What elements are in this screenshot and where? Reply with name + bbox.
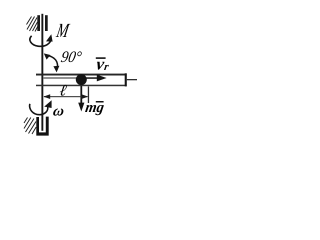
weight arrow mg [80,86,82,104]
moment arrow M (rotation arc around shaft, top) [30,36,51,47]
shaft (vertical axle) [41,14,43,131]
top support hatching [27,17,39,32]
90-degree angle arc with two arrowheads [46,55,58,69]
svg-text:90°: 90° [60,49,84,66]
top bearing left block [37,15,40,31]
tube axis stub beyond end [127,79,137,80]
top bearing right block [45,15,48,31]
dimension line l with arrowheads [44,96,88,97]
tube right end cap [125,73,127,86]
tube bottom wall [36,85,127,87]
dimension extension line at ball [88,86,89,103]
label mg with overbar on g [84,100,105,116]
label v_r with overbar [96,57,106,59]
label omega [52,103,65,119]
angular velocity arrow omega (rotation arc around shaft, bottom) [30,104,48,115]
bottom bearing socket (U-shaped step bearing) [36,117,48,136]
ball m (point mass in tube) [76,74,87,85]
bottom support hatching [24,118,36,135]
relative velocity arrow v_r [86,77,99,79]
label M [54,20,71,42]
label 90deg [60,49,84,66]
label l (script ell) [58,83,68,100]
tube top wall [36,74,127,76]
tube inner wall line [44,77,82,78]
